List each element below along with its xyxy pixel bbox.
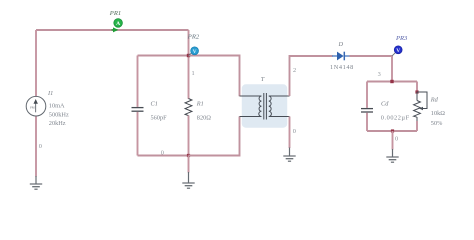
wire output top: [367, 81, 417, 83]
wire primary bottom to tank bottom: [189, 116, 240, 155]
svg-text:1N4148: 1N4148: [330, 64, 354, 71]
svg-text:10mA: 10mA: [49, 103, 65, 110]
wire tank to transformer primary top: [189, 56, 240, 97]
wire source bottom to ground: [35, 116, 37, 176]
wire tank bottom: [138, 155, 189, 157]
svg-text:Cd: Cd: [381, 101, 389, 108]
svg-text:PR3: PR3: [395, 35, 408, 42]
wire PR2 vertical down to R1: [188, 30, 190, 99]
junction mid bottom: [187, 154, 190, 157]
wire tank top: [138, 55, 189, 57]
wire secondary bottom down: [289, 117, 291, 149]
junction output top: [390, 80, 393, 83]
svg-text:820Ω: 820Ω: [197, 114, 211, 121]
current source I1: [26, 96, 46, 116]
svg-text:PR2: PR2: [187, 33, 200, 40]
transformer secondary pins: [269, 96, 290, 117]
diode D 1N4148: [332, 52, 350, 61]
ground (tank): [182, 172, 194, 188]
wire pot branch bottom: [416, 121, 418, 131]
potentiometer Rd: [414, 92, 427, 121]
svg-text:10kΩ: 10kΩ: [431, 110, 445, 117]
svg-text:50%: 50%: [431, 120, 443, 127]
svg-text:0: 0: [293, 128, 296, 135]
svg-text:FM: FM: [30, 106, 35, 110]
capacitor C1: [132, 108, 144, 112]
junction pot wiper: [415, 90, 418, 93]
probe PR2 circle: [191, 47, 199, 55]
svg-text:D: D: [338, 41, 344, 48]
svg-text:3: 3: [378, 71, 381, 78]
wire tank left lower: [137, 112, 139, 156]
svg-text:0.0022µF: 0.0022µF: [381, 114, 410, 121]
wire output left upper: [366, 82, 368, 108]
wire pot branch top: [416, 82, 418, 93]
wire left vertical to current source: [35, 30, 37, 96]
svg-text:C1: C1: [151, 101, 158, 108]
wire stem to mid ground: [188, 156, 190, 173]
svg-text:V: V: [193, 49, 197, 55]
svg-text:T: T: [261, 76, 265, 83]
probe PR1 circle: [114, 19, 123, 28]
svg-text:R1: R1: [196, 101, 204, 108]
resistor R1: [185, 99, 192, 116]
transformer primary winding: [259, 96, 262, 117]
junction output bottom: [391, 129, 394, 132]
wire tank left upper: [137, 56, 139, 107]
svg-text:PR1: PR1: [109, 10, 121, 17]
wire diode to PR3 corner: [350, 55, 393, 57]
svg-text:20kHz: 20kHz: [49, 120, 66, 127]
svg-text:Rd: Rd: [430, 97, 439, 104]
svg-text:0: 0: [395, 136, 398, 143]
probe PR2 tail: [189, 53, 192, 56]
transformer core: [264, 93, 267, 120]
transformer secondary winding: [269, 96, 272, 117]
wire PR3 corner down: [391, 56, 393, 82]
svg-text:V: V: [396, 48, 400, 54]
svg-text:0: 0: [39, 143, 42, 150]
wire output bottom: [367, 130, 417, 132]
capacitor Cd: [361, 109, 373, 112]
probe PR3 tail: [392, 53, 395, 56]
svg-text:I1: I1: [47, 90, 53, 97]
wire output left lower: [366, 113, 368, 131]
wire top from source to PR2 branch: [36, 29, 189, 31]
ground (output): [386, 149, 398, 162]
svg-text:A: A: [116, 21, 120, 27]
svg-text:500kHz: 500kHz: [49, 112, 69, 119]
wire stem to output ground: [392, 131, 394, 150]
ground (transformer): [283, 148, 295, 162]
probe PR3 circle: [394, 46, 402, 54]
pot wiper arrow: [419, 107, 423, 111]
probe PR1 arrow: [112, 27, 119, 32]
transformer primary pins: [240, 96, 262, 117]
ground (below current source): [30, 176, 42, 189]
svg-text:1: 1: [192, 70, 195, 77]
svg-text:560pF: 560pF: [151, 114, 168, 121]
wire R1 bottom lead: [188, 116, 190, 156]
svg-text:0: 0: [161, 150, 164, 157]
svg-text:2: 2: [293, 67, 296, 74]
transformer T body: [242, 84, 287, 127]
wire secondary top to diode: [290, 56, 333, 96]
junction PR2: [187, 54, 190, 57]
